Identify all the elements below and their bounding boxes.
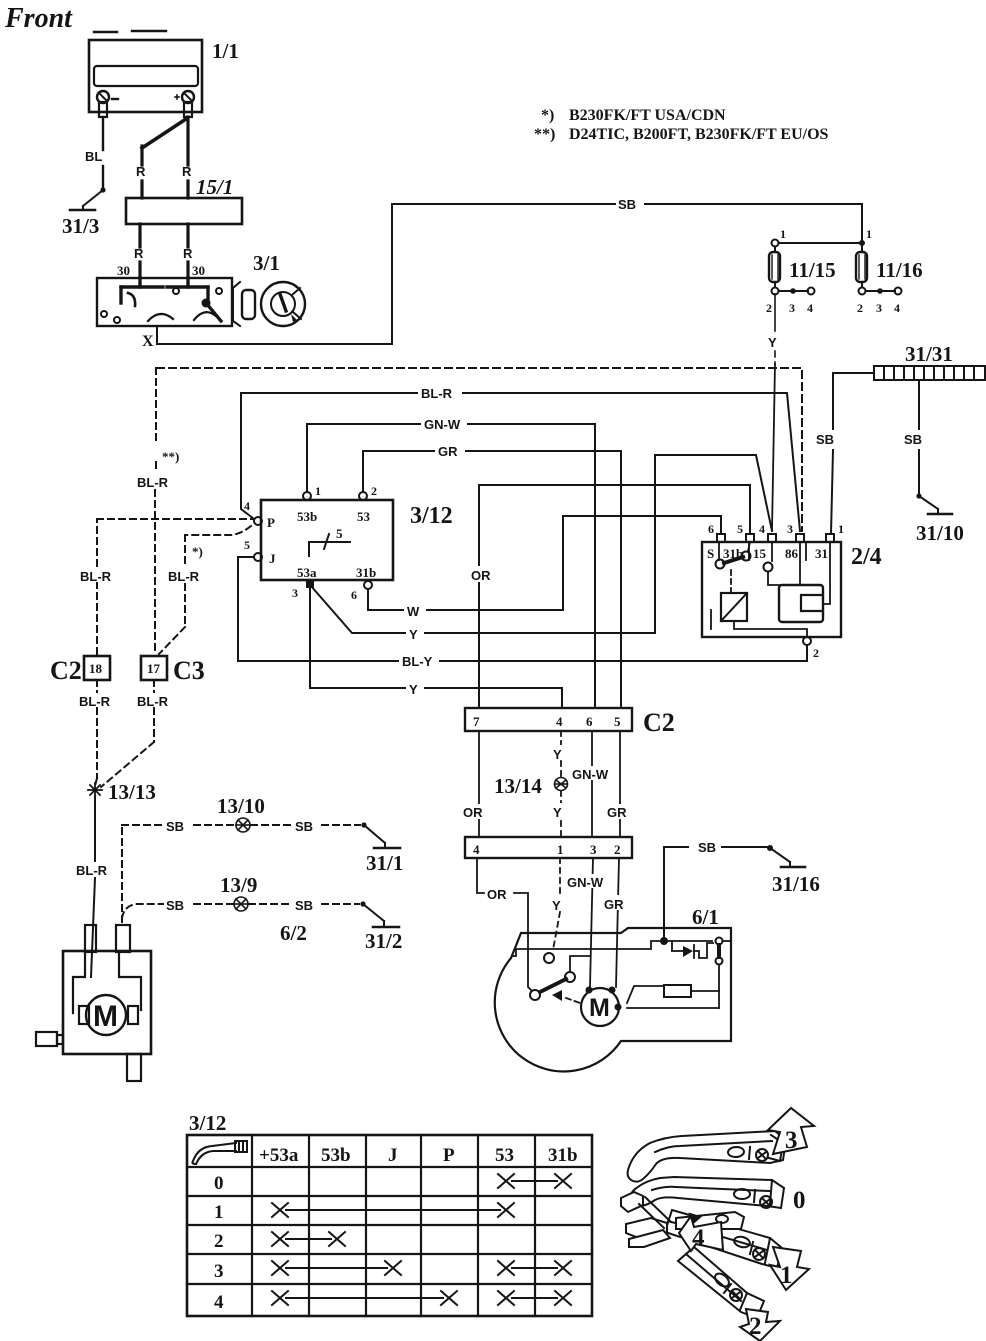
wire resistor to motor (627, 986, 664, 1003)
label BL-Y (399, 653, 439, 669)
svg-text:6: 6 (708, 522, 714, 536)
wire R fuse to ignition right (186, 224, 189, 278)
svg-text:J: J (388, 1145, 398, 1166)
wire SB strip to ground 31/10 (916, 380, 921, 499)
wire 31 to contact (823, 542, 830, 604)
park switch arm in 6/1 (530, 956, 590, 1000)
pin 1 terminal 31 (826, 534, 834, 542)
ignition switch housing (97, 278, 232, 326)
svg-text:0: 0 (214, 1173, 224, 1194)
svg-text:31/10: 31/10 (916, 521, 964, 545)
scan marks above battery (94, 31, 166, 32)
label Y below splice (550, 803, 568, 820)
wire coil to pin 2 (711, 610, 807, 636)
splice 13/10 (236, 818, 250, 832)
svg-text:BL-R: BL-R (421, 386, 453, 401)
diode park circuit (672, 941, 713, 958)
svg-text:BL-R: BL-R (137, 694, 169, 709)
svg-text:**): **) (534, 126, 555, 143)
label BL-R (418, 385, 462, 401)
pin 2 terminal 53 (359, 492, 367, 500)
svg-text:C2: C2 (643, 708, 675, 737)
svg-text:GR: GR (438, 444, 458, 459)
svg-text:0: 0 (793, 1187, 806, 1214)
wire BL-R dashed connector C2-18 to P (97, 519, 253, 654)
wire GN-W C2-6 to strip pin 3 (591, 731, 593, 837)
row 0 contacts 53 to 31b (498, 1174, 571, 1188)
svg-text:W: W (407, 604, 420, 619)
svg-text:2: 2 (214, 1231, 224, 1252)
svg-text:31/2: 31/2 (365, 929, 402, 953)
svg-text:*): *) (192, 544, 203, 559)
svg-text:SB: SB (166, 898, 184, 913)
svg-text:S: S (707, 546, 714, 561)
wire GR strip to motor 6/1 (616, 858, 619, 987)
svg-text:53b: 53b (321, 1145, 351, 1166)
svg-text:5: 5 (336, 526, 343, 541)
fuse 11/15 (769, 247, 780, 287)
svg-text:Y: Y (553, 747, 562, 762)
svg-text:11/15: 11/15 (789, 258, 836, 282)
wire BL-R dashed variant loop top (157, 368, 802, 531)
svg-text:4: 4 (556, 714, 563, 729)
svg-text:GR: GR (604, 897, 624, 912)
wire BL-R switch P to relay 86 (241, 393, 800, 531)
svg-text:15: 15 (753, 546, 767, 561)
wire link fuse tops (772, 240, 866, 247)
hub bracket upper left (621, 1192, 643, 1212)
wire Y fuse 11/15 to relay pin 4 (772, 294, 775, 530)
svg-text:1: 1 (780, 227, 786, 241)
svg-text:SB: SB (698, 840, 716, 855)
svg-text:30: 30 (192, 263, 205, 278)
fusebox 15/1 (126, 198, 242, 224)
svg-text:17: 17 (147, 661, 161, 676)
wire Y switch 53a to relay 15 (311, 455, 772, 633)
svg-text:5: 5 (737, 522, 743, 536)
svg-text:7: 7 (473, 714, 480, 729)
wiper switch 3/12 (261, 500, 393, 580)
svg-text:3/12: 3/12 (189, 1111, 226, 1135)
wire park contact to resistor and motor (627, 965, 719, 1008)
label GR (435, 443, 465, 459)
relay pin 15 internal contact (764, 542, 780, 585)
svg-text:1: 1 (214, 1202, 224, 1223)
wire SB dashed splice 13/9 to ground 31/2 (249, 903, 359, 905)
wire Y dashed strip to motor 6/1 (553, 858, 560, 950)
svg-text:X: X (142, 333, 154, 350)
wire SB ignition X to fuses (157, 204, 862, 344)
label GN-W (421, 416, 467, 432)
svg-text:GN-W: GN-W (567, 875, 604, 890)
label Y (552, 745, 568, 762)
svg-text:4: 4 (759, 522, 765, 536)
svg-text:R: R (182, 164, 192, 179)
svg-text:13/13: 13/13 (108, 780, 156, 804)
pin 3 terminal 53a (306, 580, 314, 588)
svg-text:4: 4 (214, 1292, 224, 1313)
svg-text:R: R (136, 164, 146, 179)
svg-text:Y: Y (553, 805, 562, 820)
stalk position drawing (621, 1108, 814, 1341)
connector C3 pin 17 (141, 656, 167, 680)
ground 31/10 (919, 496, 952, 514)
wire SB dashed pump to splice 13/9 row (122, 904, 233, 918)
ground 31/2 (360, 901, 399, 927)
svg-text:13/10: 13/10 (217, 794, 265, 818)
svg-text:4: 4 (807, 301, 813, 315)
svg-text:1: 1 (866, 227, 872, 241)
ground 31/1 (361, 822, 400, 848)
svg-text:GN-W: GN-W (572, 767, 609, 782)
wire BL battery negative (100, 117, 105, 193)
stalk lever position 0 (630, 1177, 785, 1208)
ground 31/3 (70, 190, 103, 210)
svg-text:1: 1 (780, 1262, 793, 1289)
svg-text:13/14: 13/14 (494, 774, 542, 798)
ignition switch internal contacts left (101, 278, 173, 323)
svg-text:6/2: 6/2 (280, 921, 307, 945)
svg-text:15/1: 15/1 (196, 175, 233, 199)
battery 1/1 (89, 40, 202, 117)
wire W switch 31b to relay S (368, 516, 721, 610)
pin 5 terminal J (254, 553, 262, 561)
svg-text:R: R (134, 246, 144, 261)
svg-text:4: 4 (473, 842, 480, 857)
stalk lever position 4 short bar (676, 1212, 744, 1229)
motor M of pump 6/2 (86, 995, 126, 1035)
row 3 contacts +53a to J and 53 to 31b (272, 1261, 571, 1275)
svg-text:6: 6 (586, 714, 593, 729)
relay armature link dashed (730, 570, 732, 592)
stalk lever position 3 (628, 1131, 786, 1182)
svg-text:31b: 31b (548, 1145, 578, 1166)
relay internal cell dividers (719, 542, 806, 560)
svg-text:31: 31 (815, 546, 828, 561)
pin 4 terminal P (254, 517, 262, 525)
svg-text:53: 53 (357, 509, 371, 524)
svg-text:BL-R: BL-R (76, 863, 108, 878)
svg-text:3: 3 (876, 301, 882, 315)
svg-text:6/1: 6/1 (692, 905, 719, 929)
wire BL-R dashed C2-18 to splice 13/13 (95, 680, 97, 786)
svg-text:2: 2 (749, 1313, 762, 1340)
row 1 contacts +53a to 53 (272, 1203, 514, 1217)
direction arrow 4 (679, 1214, 723, 1252)
wire OR connector C2-7 to relay 31b (479, 485, 750, 708)
terminal Y in 6/1 (544, 953, 554, 963)
ground 31/16 (770, 848, 805, 867)
connector C2 pin 18 (84, 656, 110, 680)
svg-text:P: P (443, 1145, 455, 1166)
svg-text:31/31: 31/31 (905, 342, 953, 366)
relay switch arm (716, 542, 751, 569)
svg-text:31b: 31b (356, 565, 376, 580)
hub strut (639, 1197, 671, 1228)
svg-text:M: M (93, 1000, 118, 1033)
svg-text:SB: SB (618, 197, 636, 212)
svg-text:31/1: 31/1 (366, 851, 403, 875)
wire BL-R dashed variant *) to C3 (159, 526, 251, 654)
row 4 contacts +53a to P and 53 to 31b (272, 1291, 571, 1305)
wire SB dashed splice 13/10 to ground 31/1 (251, 824, 360, 826)
wire R battery positive left branch (142, 119, 186, 198)
label GN-W (566, 874, 610, 890)
connector strip lower (465, 837, 632, 858)
svg-text:2: 2 (766, 301, 772, 315)
svg-text:BL: BL (85, 149, 102, 164)
svg-text:2: 2 (371, 484, 377, 498)
svg-text:3: 3 (590, 842, 597, 857)
svg-text:3: 3 (789, 301, 795, 315)
fuse 11/15 lower pins 2 3 4 (772, 288, 815, 295)
wire Y switch 53a to connector C2-4 (310, 586, 562, 708)
wire R battery positive right branch (186, 117, 189, 198)
wiper motor 6/1 housing (495, 928, 731, 1071)
label Y (406, 625, 424, 642)
junction SB inside 6/1 (660, 937, 668, 945)
svg-text:3: 3 (787, 522, 793, 536)
svg-text:3: 3 (292, 586, 298, 600)
svg-text:5: 5 (614, 714, 621, 729)
splice 13/13 (88, 783, 102, 797)
svg-text:3: 3 (214, 1261, 224, 1282)
svg-text:BL-R: BL-R (79, 694, 111, 709)
wire GN-W switch 53b to connector C2-6 (307, 424, 595, 708)
svg-text:4: 4 (692, 1225, 705, 1252)
svg-text:11/16: 11/16 (876, 258, 923, 282)
pin 3 terminal 86 (796, 534, 804, 542)
pin 1 terminal 53b (303, 492, 311, 500)
ground strip 31/31 (874, 366, 985, 380)
stalk lever position 1 (665, 1210, 782, 1268)
svg-text:*): *) (541, 107, 554, 124)
svg-text:86: 86 (785, 546, 799, 561)
svg-text:BL-R: BL-R (137, 475, 169, 490)
svg-text:M: M (589, 994, 610, 1022)
svg-text:SB: SB (295, 819, 313, 834)
svg-text:1: 1 (838, 522, 844, 536)
svg-text:**): **) (162, 449, 179, 464)
svg-text:SB: SB (904, 432, 922, 447)
svg-text:BL-Y: BL-Y (402, 654, 433, 669)
linkage arrow in 6/1 (552, 990, 580, 1003)
fuse 11/16 (856, 247, 867, 287)
wire 86 to contact (799, 542, 801, 585)
wire BL-R dashed variant left (155, 368, 156, 654)
direction arrow 2 (740, 1309, 780, 1341)
park contact (716, 938, 732, 965)
svg-text:18: 18 (89, 661, 103, 676)
svg-text:1/1: 1/1 (212, 39, 239, 63)
direction arrow 1 (770, 1247, 809, 1290)
wire OR C2-7 to strip pin 4 (478, 731, 480, 837)
svg-text:2/4: 2/4 (851, 544, 882, 570)
svg-text:2: 2 (614, 842, 621, 857)
svg-text:53: 53 (495, 1145, 514, 1166)
svg-text:Y: Y (409, 627, 418, 642)
stalk icon in table header (192, 1141, 247, 1164)
wire SB motor 6/1 to ground 31/16 (664, 845, 773, 938)
svg-text:SB: SB (295, 898, 313, 913)
switch position table 3/12 (187, 1135, 592, 1316)
key lock 3/1 (233, 282, 305, 326)
svg-text:53b: 53b (297, 509, 317, 524)
svg-text:53a: 53a (297, 565, 317, 580)
svg-text:5: 5 (244, 538, 250, 552)
motor 6/1 internal compartment line (512, 941, 712, 956)
wire GR switch 53 to connector C2-5 (363, 451, 621, 708)
wire SB strip to relay pin 1 (831, 373, 874, 534)
svg-text:13/9: 13/9 (220, 873, 257, 897)
svg-text:30: 30 (117, 263, 130, 278)
washer pump 6/2 (36, 925, 151, 1081)
svg-text:3: 3 (785, 1127, 798, 1154)
svg-text:1: 1 (315, 484, 321, 498)
splice 13/14 (555, 778, 568, 791)
svg-text:1: 1 (557, 842, 564, 857)
svg-text:Y: Y (409, 682, 418, 697)
wire BL-Y switch J to relay pin 2 (238, 557, 807, 661)
wire BL-R dashed C3-17 to splice 13/13 (101, 680, 154, 787)
svg-text:2: 2 (857, 301, 863, 315)
relay coil (721, 593, 747, 621)
wire OR strip to motor 6/1 (477, 858, 532, 991)
wire BL-R splice 13/13 to pump 6/2 (91, 797, 95, 977)
hub bracket lower left (626, 1218, 670, 1247)
row 2 contacts +53a to 53b (272, 1232, 345, 1246)
connector strip C2 (465, 708, 632, 731)
wiper motor M (581, 987, 622, 1027)
svg-text:BL-R: BL-R (168, 569, 200, 584)
svg-text:6: 6 (351, 588, 357, 602)
svg-text:3/1: 3/1 (253, 251, 280, 275)
relay contact element (779, 585, 823, 622)
svg-text:OR: OR (471, 568, 491, 583)
svg-text:P: P (267, 515, 275, 530)
wire R fuse to ignition left (138, 224, 141, 278)
svg-text:31/16: 31/16 (772, 872, 820, 896)
svg-text:31/3: 31/3 (62, 214, 99, 238)
svg-text:C3: C3 (173, 656, 205, 685)
pin 6 terminal S (717, 534, 725, 542)
label W (404, 602, 426, 619)
resistor in 6/1 (664, 985, 691, 997)
svg-text:GR: GR (607, 805, 627, 820)
stalk lever position 2 (678, 1247, 764, 1318)
wire Y dashed C2-4 to splice 13/14 (560, 731, 562, 837)
svg-text:B230FK/FT USA/CDN: B230FK/FT USA/CDN (569, 107, 726, 124)
svg-text:Y: Y (552, 898, 561, 913)
wire GN-W strip to motor 6/1 (590, 858, 593, 987)
direction arrow 3 (768, 1108, 814, 1154)
relay 2/4 (702, 542, 841, 637)
svg-text:3/12: 3/12 (410, 503, 453, 529)
label Y (406, 680, 424, 697)
wire GR C2-5 to strip pin 2 (619, 731, 621, 837)
svg-text:+53a: +53a (259, 1145, 299, 1166)
svg-text:2: 2 (813, 646, 819, 660)
svg-text:SB: SB (166, 819, 184, 834)
label GN-W (570, 766, 614, 782)
ignition switch internal contacts right (167, 278, 222, 321)
label GR (601, 895, 629, 912)
svg-text:BL-R: BL-R (80, 569, 112, 584)
svg-text:SB: SB (816, 432, 834, 447)
pin 6 terminal 31b (364, 581, 372, 589)
svg-text:GN-W: GN-W (424, 417, 461, 432)
svg-text:Front: Front (4, 3, 73, 34)
splice 13/9 (234, 897, 248, 911)
label OR (461, 804, 485, 820)
svg-text:D24TIC, B200FT, B230FK/FT EU/O: D24TIC, B200FT, B230FK/FT EU/OS (569, 126, 829, 143)
pin 2 of relay (803, 637, 819, 660)
label OR (470, 566, 494, 583)
svg-text:OR: OR (487, 887, 507, 902)
svg-text:Y: Y (768, 335, 777, 350)
wire SB dashed pump to splice 13/10 row (122, 825, 235, 922)
svg-text:C2: C2 (50, 656, 82, 685)
pin 4 terminal 15 (768, 534, 776, 542)
svg-text:OR: OR (463, 805, 483, 820)
fuse 11/16 lower pins 2 3 4 (859, 288, 902, 295)
svg-text:R: R (183, 246, 193, 261)
internal position symbol 5 (309, 534, 350, 556)
label GR (604, 804, 632, 820)
pin 5 terminal 31b (746, 534, 754, 542)
svg-text:J: J (269, 551, 276, 566)
svg-text:4: 4 (894, 301, 900, 315)
